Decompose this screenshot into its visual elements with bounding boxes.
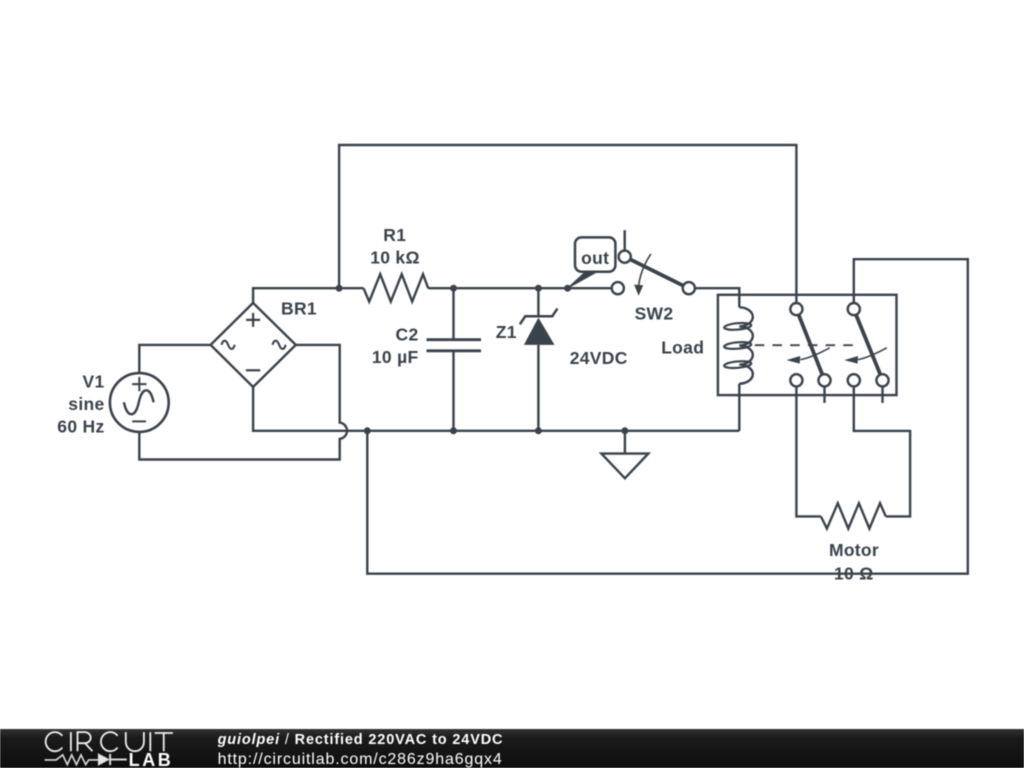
svg-text:sine: sine (68, 394, 104, 414)
wire out junction to SW2 (568, 287, 612, 289)
svg-text:Load: Load (661, 338, 704, 358)
svg-text:SW2: SW2 (635, 304, 674, 324)
relay S1 NC stub (823, 386, 825, 403)
wire R1 to C2 node (428, 287, 453, 289)
svg-text:10 Ω: 10 Ω (834, 563, 874, 583)
svg-text:60 Hz: 60 Hz (57, 416, 104, 436)
svg-text:Z1: Z1 (496, 322, 517, 342)
junction Z1 top (535, 285, 542, 292)
svg-text:10 µF: 10 µF (372, 347, 419, 367)
junction C2 bottom (450, 427, 457, 434)
wire top rail (339, 145, 796, 303)
zener diode Z1 triangle (524, 318, 555, 345)
switch SW2 pole stub (624, 230, 626, 250)
svg-text:C2: C2 (396, 325, 419, 345)
relay S2 actuation arrow (858, 348, 887, 360)
relay dashed actuation link (755, 344, 854, 346)
svg-text:guiolpei / Rectified 220VAC to: guiolpei / Rectified 220VAC to 24VDC (217, 732, 504, 748)
capacitor C2 top lead (452, 288, 454, 340)
CircuitLab logo wordmark CIRCUIT (46, 732, 173, 751)
wire node to R1 (339, 287, 363, 289)
svg-text:LAB: LAB (129, 750, 174, 768)
svg-text:http://circuitlab.com/c286z9ha: http://circuitlab.com/c286z9ha6gqx4 (218, 751, 503, 768)
svg-text:Motor: Motor (829, 540, 879, 560)
wire S2 common right loop to bottom rail (367, 259, 968, 574)
svg-text:10 kΩ: 10 kΩ (370, 248, 420, 268)
wire C2 node to Z1 node (454, 287, 539, 289)
resistor Motor (821, 503, 886, 528)
capacitor C2 bottom lead (452, 351, 454, 431)
wire BR1 plus output to node (253, 288, 339, 303)
relay switch S1 (790, 303, 830, 386)
svg-text:24VDC: 24VDC (570, 348, 628, 368)
voltage source V1 (110, 373, 169, 432)
junction C2 top (450, 285, 457, 292)
junction node out (564, 285, 571, 292)
wire Z1 node to out junction (538, 287, 567, 289)
wire V1 plus to BR1 ac1 (139, 345, 210, 374)
wire ground rail (253, 387, 739, 431)
svg-text:R1: R1 (383, 225, 406, 245)
relay coil bumps (739, 307, 753, 383)
wire V1 minus to BR1 ac2 with hop (139, 345, 347, 460)
junction Z1 bottom (535, 427, 542, 434)
svg-text:BR1: BR1 (281, 298, 317, 318)
switch SW2 (612, 251, 695, 295)
relay box (718, 295, 897, 395)
svg-text:V1: V1 (82, 372, 104, 392)
ground symbol (601, 431, 648, 479)
junction ground (621, 427, 628, 434)
switch SW2 actuation arrow (638, 254, 651, 289)
relay coil loops (724, 322, 752, 369)
wire SW2 to relay coil (695, 288, 739, 307)
junction bottom rail left (364, 427, 371, 434)
zener diode Z1 cathode bar (520, 309, 558, 325)
wire motor to S2 contact (854, 386, 910, 516)
footer bar (0, 729, 1024, 768)
relay S1 actuation arrow (801, 348, 830, 360)
bridge rectifier BR1 (211, 303, 296, 387)
relay S2 NC stub (881, 386, 883, 403)
wire coil to ground rail (738, 384, 740, 431)
relay switch S2 (848, 303, 889, 386)
wire S1 normally-open to motor (796, 386, 821, 516)
capacitor C2 plates (427, 340, 482, 351)
junction at R1 left (336, 285, 343, 292)
resistor R1 (364, 274, 429, 301)
svg-text:out: out (581, 248, 609, 268)
CircuitLab logo resistor-diode glyph (45, 754, 127, 765)
node flag out (568, 272, 597, 288)
zener diode Z1 leads (537, 288, 539, 431)
